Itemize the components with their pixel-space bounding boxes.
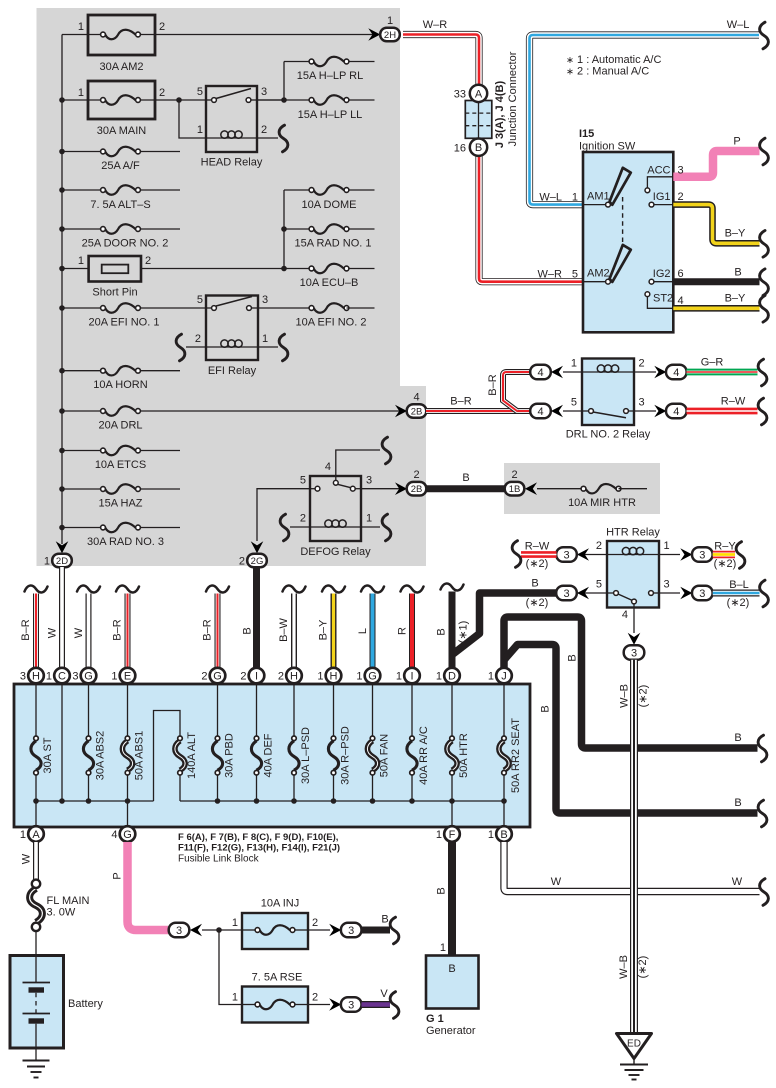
break symbol W	[760, 879, 769, 906]
svg-text:50A ABS1: 50A ABS1	[134, 731, 146, 781]
svg-text:2: 2	[201, 671, 207, 683]
svg-text:2G: 2G	[251, 556, 264, 567]
svg-text:E: E	[124, 671, 131, 683]
svg-text:(∗2): (∗2)	[526, 597, 549, 609]
break symbol B INJ	[390, 917, 399, 944]
break symbol B-L	[760, 580, 769, 607]
svg-text:40A DEF: 40A DEF	[263, 733, 275, 777]
svg-text:3: 3	[678, 165, 684, 177]
connector 1B	[505, 469, 537, 495]
node RAD NO.1 junction	[281, 226, 287, 232]
svg-text:I: I	[255, 671, 258, 683]
svg-text:B: B	[734, 267, 741, 279]
gray background panel	[37, 8, 427, 566]
svg-text:W–B: W–B	[619, 684, 631, 708]
fusible link 50A FAN	[367, 734, 390, 777]
svg-text:B: B	[475, 142, 482, 154]
ground battery	[23, 1061, 50, 1078]
svg-text:2: 2	[639, 358, 645, 370]
svg-text:4: 4	[325, 461, 331, 473]
svg-text:R–Y: R–Y	[714, 541, 736, 553]
svg-text:2: 2	[159, 87, 165, 99]
connector 3 (HTR pin2 side)	[556, 547, 607, 562]
svg-text:B: B	[540, 705, 552, 712]
break symbol G-R	[758, 359, 767, 386]
svg-text:FL MAIN: FL MAIN	[47, 895, 90, 907]
svg-text:W–R: W–R	[423, 19, 448, 31]
wire DEFOG pin1 stub	[361, 526, 380, 528]
svg-text:3: 3	[176, 925, 182, 937]
wire B-W col H2	[278, 586, 306, 668]
wire MIR HTR right stub	[619, 488, 648, 490]
svg-text:25A DOOR NO. 2: 25A DOOR NO. 2	[82, 238, 169, 250]
svg-text:3: 3	[664, 579, 670, 591]
svg-text:HEAD Relay: HEAD Relay	[201, 157, 263, 169]
svg-text:1: 1	[111, 671, 117, 683]
svg-text:B: B	[500, 829, 507, 841]
connector F (bottom)	[436, 826, 460, 842]
break symbol R-W	[758, 398, 767, 425]
connector 3 (HTR pin5 side)	[556, 586, 607, 601]
wire DEFOG pin2 stub	[290, 526, 310, 528]
fusible link 50A HTR	[447, 733, 470, 778]
connector H (30A L-PSD)	[278, 668, 302, 684]
svg-text:140A ALT: 140A ALT	[186, 732, 198, 779]
wire R-W (DRL out)	[687, 396, 758, 412]
svg-text:1: 1	[317, 671, 323, 683]
wire DEFOG pin3 to 2B	[361, 488, 404, 490]
svg-text:1: 1	[20, 829, 26, 841]
connector A (bottom)	[20, 826, 44, 842]
connector 3 (HTR pin1 side)	[659, 547, 713, 562]
fusible link 40A DEF	[251, 733, 274, 777]
svg-text:R: R	[397, 627, 409, 635]
wire W-B from HTR pin4 to ED	[618, 660, 650, 1032]
contact IG1	[654, 204, 673, 206]
wire row 30A RAD NO.3	[62, 527, 103, 529]
break symbol B-Y IG1	[760, 231, 769, 258]
wire EFI pin3 to 10A EFI NO.2	[258, 307, 312, 309]
svg-text:1: 1	[396, 671, 402, 683]
node INJ/RSE branch	[216, 927, 222, 933]
svg-text:6: 6	[678, 268, 684, 280]
wire AM2 internal	[583, 281, 606, 283]
svg-text:5: 5	[197, 294, 203, 306]
wire row 30A MAIN	[62, 99, 103, 101]
svg-text:2: 2	[678, 191, 684, 203]
svg-text:5: 5	[572, 269, 578, 281]
connector G (30A PBD)	[201, 668, 225, 684]
bus junction dots	[33, 798, 507, 804]
break symbol R-W left	[512, 541, 521, 568]
svg-text:R–W: R–W	[525, 541, 550, 553]
connector B (bottom)	[488, 826, 512, 842]
svg-text:4: 4	[537, 406, 543, 418]
svg-text:4: 4	[413, 392, 419, 404]
svg-text:∗ 1 : Automatic A/C: ∗ 1 : Automatic A/C	[566, 54, 661, 66]
bus left	[36, 800, 154, 802]
connector 3 (RSE out)	[308, 997, 362, 1012]
svg-text:7. 5A RSE: 7. 5A RSE	[252, 972, 303, 984]
wire row 20A DRL	[62, 410, 103, 412]
svg-text:15A H–LP LL: 15A H–LP LL	[298, 109, 363, 121]
wire R-Y	[713, 541, 737, 571]
svg-text:2: 2	[195, 333, 201, 345]
fuse 10A ETCS	[95, 446, 146, 471]
wire B-Y col H3	[318, 586, 346, 668]
wire EFI pin2 stub	[186, 346, 206, 348]
wire row 15A HAZ	[62, 488, 103, 490]
svg-text:2: 2	[511, 469, 517, 481]
fuse 7.5A ALT-S	[90, 185, 150, 211]
svg-text:50A RR2 SEAT: 50A RR2 SEAT	[510, 718, 522, 793]
wire risers top	[35, 684, 37, 736]
svg-text:1: 1	[572, 192, 578, 204]
fuse 30A AM2	[78, 15, 165, 73]
svg-text:B–R: B–R	[20, 619, 32, 640]
svg-text:25A A/F: 25A A/F	[101, 160, 140, 172]
svg-text:33: 33	[454, 89, 466, 101]
svg-text:G: G	[213, 671, 222, 683]
break symbol HEAD pin2	[279, 125, 288, 152]
wire 10A EFI NO.2 right stub	[347, 307, 375, 309]
svg-text:1B: 1B	[509, 484, 521, 495]
svg-text:2B: 2B	[411, 407, 423, 418]
fusible link 30A ABS2	[83, 731, 106, 781]
svg-text:B: B	[567, 654, 579, 661]
svg-text:2: 2	[300, 513, 306, 525]
fusible link 40A RR A/C	[407, 726, 430, 785]
wire to MIR HTR fuse	[537, 488, 584, 490]
svg-text:10A MIR HTR: 10A MIR HTR	[568, 497, 636, 509]
svg-text:2: 2	[413, 469, 419, 481]
wire FL MAIN to battery	[35, 931, 37, 955]
wire HEAD pin3 to H-LP LL	[257, 99, 284, 101]
junction dots on bus	[59, 97, 65, 530]
svg-text:1: 1	[366, 513, 372, 525]
svg-text:1: 1	[436, 829, 442, 841]
fusible link 30A R-PSD	[328, 726, 351, 785]
svg-text:(∗1): (∗1)	[458, 621, 470, 644]
svg-text:4: 4	[622, 609, 628, 621]
svg-text:1: 1	[78, 87, 84, 99]
wire row 15A H-LP RL	[284, 61, 312, 63]
svg-text:3. 0W: 3. 0W	[47, 907, 76, 919]
svg-text:7. 5A ALT–S: 7. 5A ALT–S	[90, 199, 150, 211]
svg-text:3: 3	[699, 588, 705, 600]
note automatic/manual A/C	[566, 54, 661, 78]
wire row 10A HORN	[62, 370, 103, 372]
svg-text:1: 1	[440, 942, 446, 954]
connector E (50A ABS1)	[111, 668, 135, 684]
svg-text:4: 4	[537, 367, 543, 379]
svg-text:W: W	[21, 853, 33, 864]
svg-text:20A EFI NO. 1: 20A EFI NO. 1	[89, 317, 160, 329]
svg-text:DEFOG Relay: DEFOG Relay	[300, 546, 371, 558]
connector 2B (DEFOG row)	[395, 469, 426, 495]
svg-text:H: H	[32, 671, 40, 683]
svg-text:3: 3	[366, 475, 372, 487]
fuse 10A DOME	[301, 185, 356, 211]
svg-text:AM2: AM2	[587, 268, 610, 280]
wire B col J path1 (to first right B)	[504, 617, 758, 748]
svg-text:20A DRL: 20A DRL	[98, 420, 142, 432]
svg-text:3: 3	[631, 648, 637, 660]
svg-text:W: W	[732, 876, 743, 888]
break symbol B-Y ST2	[760, 296, 769, 323]
wire B col J path2 (to second right B)	[504, 645, 758, 814]
svg-text:P: P	[112, 872, 124, 879]
fuse 10A INJ	[232, 898, 318, 950]
contact IG2	[654, 281, 673, 283]
wire row 30A AM2	[62, 34, 103, 36]
connector D (50A HTR)	[436, 668, 460, 684]
svg-text:5: 5	[197, 86, 203, 98]
svg-text:30A ST: 30A ST	[42, 737, 54, 773]
svg-text:2: 2	[145, 255, 151, 267]
svg-text:P: P	[733, 136, 740, 148]
wire B from IG2	[673, 267, 759, 282]
svg-text:Generator: Generator	[426, 1025, 476, 1037]
fuse 10A MIR HTR	[568, 484, 636, 509]
svg-text:1: 1	[356, 671, 362, 683]
svg-text:B: B	[734, 732, 741, 744]
bus right	[180, 800, 504, 802]
svg-text:B–L: B–L	[729, 579, 749, 591]
fuse 7.5A RSE	[232, 972, 318, 1023]
svg-text:1: 1	[571, 358, 577, 370]
svg-text:B–R: B–R	[487, 374, 499, 395]
svg-text:3: 3	[563, 588, 569, 600]
svg-text:2: 2	[596, 540, 602, 552]
fuse 30A RAD NO.3	[87, 523, 164, 548]
svg-text:W: W	[73, 627, 85, 638]
svg-text:2: 2	[278, 671, 284, 683]
svg-text:1: 1	[488, 671, 494, 683]
svg-text:I: I	[410, 671, 413, 683]
wire P from ACC	[673, 136, 759, 177]
svg-text:W–R: W–R	[538, 269, 563, 281]
svg-text:3: 3	[639, 397, 645, 409]
connector I (40A DEF)	[240, 668, 264, 684]
break symbol W-L	[760, 22, 769, 49]
connector 4 (DRL pin1 side)	[530, 365, 582, 380]
fusible link 50A ABS1	[122, 731, 145, 781]
wire G-R	[687, 357, 758, 373]
svg-text:W–L: W–L	[539, 192, 562, 204]
svg-text:(∗2): (∗2)	[637, 956, 649, 979]
svg-text:5: 5	[596, 579, 602, 591]
svg-text:1: 1	[436, 671, 442, 683]
connector 2B (DRL row)	[395, 392, 426, 418]
connector 4 (DRL pin5 side)	[530, 404, 582, 419]
svg-text:L: L	[357, 628, 369, 634]
wire P from G to connector 3	[112, 842, 169, 930]
connector 3 (INJ out)	[308, 923, 362, 938]
svg-text:1: 1	[78, 21, 84, 33]
wire AM1 internal	[583, 204, 606, 206]
wire W-L from right edge to AM1	[530, 19, 760, 205]
wire R col I2	[397, 586, 424, 668]
fusible link 30A PBD	[212, 733, 235, 778]
wire main bus vertical	[61, 35, 63, 545]
fuse 10A HORN	[93, 366, 147, 391]
wire EFI pin1 stub	[258, 346, 278, 348]
node HEAD relay feed	[176, 97, 182, 103]
wire row 10A ETCS	[62, 450, 103, 452]
relay HTR	[596, 527, 670, 608]
svg-text:W–B: W–B	[618, 955, 630, 979]
wire B (*1) col D	[436, 584, 470, 668]
svg-text:B–R: B–R	[202, 619, 214, 640]
svg-text:3: 3	[262, 294, 268, 306]
wire B-R col E	[112, 586, 140, 668]
svg-text:(∗2): (∗2)	[638, 685, 650, 708]
svg-text:J: J	[501, 671, 507, 683]
junction connector J3(A) J4(B)	[454, 51, 519, 156]
wire row 20A EFI NO.1	[62, 307, 103, 309]
wire W from A to FL MAIN	[21, 842, 37, 880]
svg-text:1: 1	[262, 333, 268, 345]
svg-text:W: W	[47, 627, 59, 638]
wire HEAD pin2 stub	[257, 137, 278, 139]
svg-text:5: 5	[300, 475, 306, 487]
svg-text:10A INJ: 10A INJ	[261, 898, 300, 910]
svg-text:B: B	[381, 914, 388, 926]
fusible link FL MAIN 3.0W	[30, 880, 90, 932]
svg-text:IG1: IG1	[653, 191, 671, 203]
switch lever AM1	[610, 168, 631, 205]
wire vertical link DOME/ECU-B	[283, 190, 285, 269]
svg-text:2D: 2D	[56, 556, 68, 567]
wire B-R col G2	[202, 586, 230, 668]
svg-text:F: F	[449, 829, 456, 841]
wire B-Y from ST2	[673, 293, 759, 309]
svg-text:B: B	[436, 628, 448, 635]
connector 4 (pin2 side)	[634, 365, 687, 380]
break symbol V RSE	[390, 992, 399, 1019]
svg-text:1: 1	[664, 540, 670, 552]
fusible link 30A L-PSD	[289, 727, 312, 784]
fuse 10A ECU-B	[300, 264, 359, 289]
fusible link 140A ALT	[175, 732, 198, 779]
svg-text:W: W	[551, 876, 562, 888]
wire W-R from 2H to AM2	[403, 19, 583, 282]
connector G (bottom pink)	[111, 826, 135, 842]
wire DEFOG pin4	[336, 450, 380, 480]
wire DEFOG pin5 to 2G	[257, 489, 310, 541]
wire W col C	[47, 567, 63, 668]
svg-text:10A EFI NO. 2: 10A EFI NO. 2	[296, 317, 367, 329]
gray panel 10A MIR HTR	[504, 463, 660, 514]
svg-text:1: 1	[44, 556, 50, 568]
svg-text:2: 2	[312, 917, 318, 929]
fuse 25A DOOR NO.2	[82, 224, 169, 249]
svg-text:J 3(A), J 4(B): J 3(A), J 4(B)	[494, 81, 506, 149]
svg-text:2H: 2H	[384, 30, 396, 41]
relay DRL NO.2	[566, 358, 651, 441]
generator G1	[426, 956, 479, 1038]
svg-text:2: 2	[239, 556, 245, 568]
svg-text:B: B	[436, 887, 448, 894]
node ECU-B junction	[281, 266, 287, 272]
wire row 15A H-LP LL	[257, 99, 312, 101]
svg-text:G: G	[84, 671, 93, 683]
break symbol R-Y	[736, 542, 745, 569]
svg-text:30A MAIN: 30A MAIN	[97, 125, 147, 137]
svg-text:B–W: B–W	[278, 617, 290, 641]
wire R-W (*2)	[521, 541, 557, 571]
wire V (RSE)	[362, 988, 391, 1005]
svg-text:3: 3	[563, 550, 569, 562]
dashed link	[622, 197, 624, 247]
svg-text:3: 3	[20, 671, 26, 683]
node H-LP junction	[281, 97, 287, 103]
svg-text:(∗2): (∗2)	[526, 558, 549, 570]
svg-text:F11(F), F12(G), F13(H), F14(I): F11(F), F12(G), F13(H), F14(I), F21(J)	[178, 843, 340, 854]
svg-text:(∗2): (∗2)	[714, 558, 737, 570]
svg-text:R–W: R–W	[721, 396, 746, 408]
svg-text:4: 4	[673, 367, 679, 379]
connector 3 (pink row)	[169, 923, 242, 938]
svg-text:1: 1	[232, 992, 238, 1004]
svg-text:B–R: B–R	[112, 619, 124, 640]
wire W col G	[73, 586, 100, 668]
svg-text:16: 16	[454, 143, 466, 155]
svg-text:B: B	[242, 627, 254, 634]
wire row Short Pin	[62, 268, 89, 270]
svg-text:DRL NO. 2 Relay: DRL NO. 2 Relay	[566, 429, 651, 441]
wire B-R from 2B to relay feeds	[426, 372, 531, 411]
wire B 2B to 1B	[426, 472, 505, 489]
svg-text:HTR Relay: HTR Relay	[606, 527, 660, 539]
break symbol B IG2	[760, 269, 769, 296]
svg-text:3: 3	[72, 671, 78, 683]
svg-text:15A RAD NO. 1: 15A RAD NO. 1	[294, 238, 371, 250]
svg-text:1: 1	[387, 15, 393, 27]
connector 2G	[239, 541, 267, 567]
svg-text:5: 5	[571, 397, 577, 409]
svg-text:IG2: IG2	[653, 268, 671, 280]
connector 3 (HTR pin3 side)	[659, 586, 713, 601]
svg-text:G–R: G–R	[701, 357, 724, 369]
wire B (*2) to D riser	[453, 578, 557, 655]
svg-text:30A ABS2: 30A ABS2	[95, 731, 107, 781]
svg-text:H: H	[330, 671, 338, 683]
svg-text:1: 1	[78, 255, 84, 267]
wire branch to RSE	[219, 930, 242, 1005]
wire row 25A DOOR NO.2	[62, 228, 103, 230]
wire B-Y from IG1	[673, 191, 759, 243]
svg-text:ACC: ACC	[647, 165, 670, 177]
svg-text:B: B	[531, 578, 538, 590]
break symbol DEFOG pin1	[382, 514, 391, 541]
svg-text:50A HTR: 50A HTR	[458, 733, 470, 778]
svg-text:ST2: ST2	[653, 293, 673, 305]
svg-text:A: A	[32, 829, 40, 841]
wire vertical link H-LP	[283, 62, 285, 101]
wire W from B connector to right	[504, 842, 760, 892]
svg-text:2: 2	[159, 21, 165, 33]
break symbol B right2	[758, 800, 767, 827]
svg-text:10A ECU–B: 10A ECU–B	[300, 277, 359, 289]
svg-text:3: 3	[348, 925, 354, 937]
ground ED	[617, 1034, 652, 1080]
fuse 15A RAD NO.1	[294, 224, 371, 249]
wire row 15A RAD NO.1	[284, 228, 312, 230]
break symbol DEFOG pin4	[382, 437, 391, 464]
fusible link 30A ST	[31, 736, 54, 775]
